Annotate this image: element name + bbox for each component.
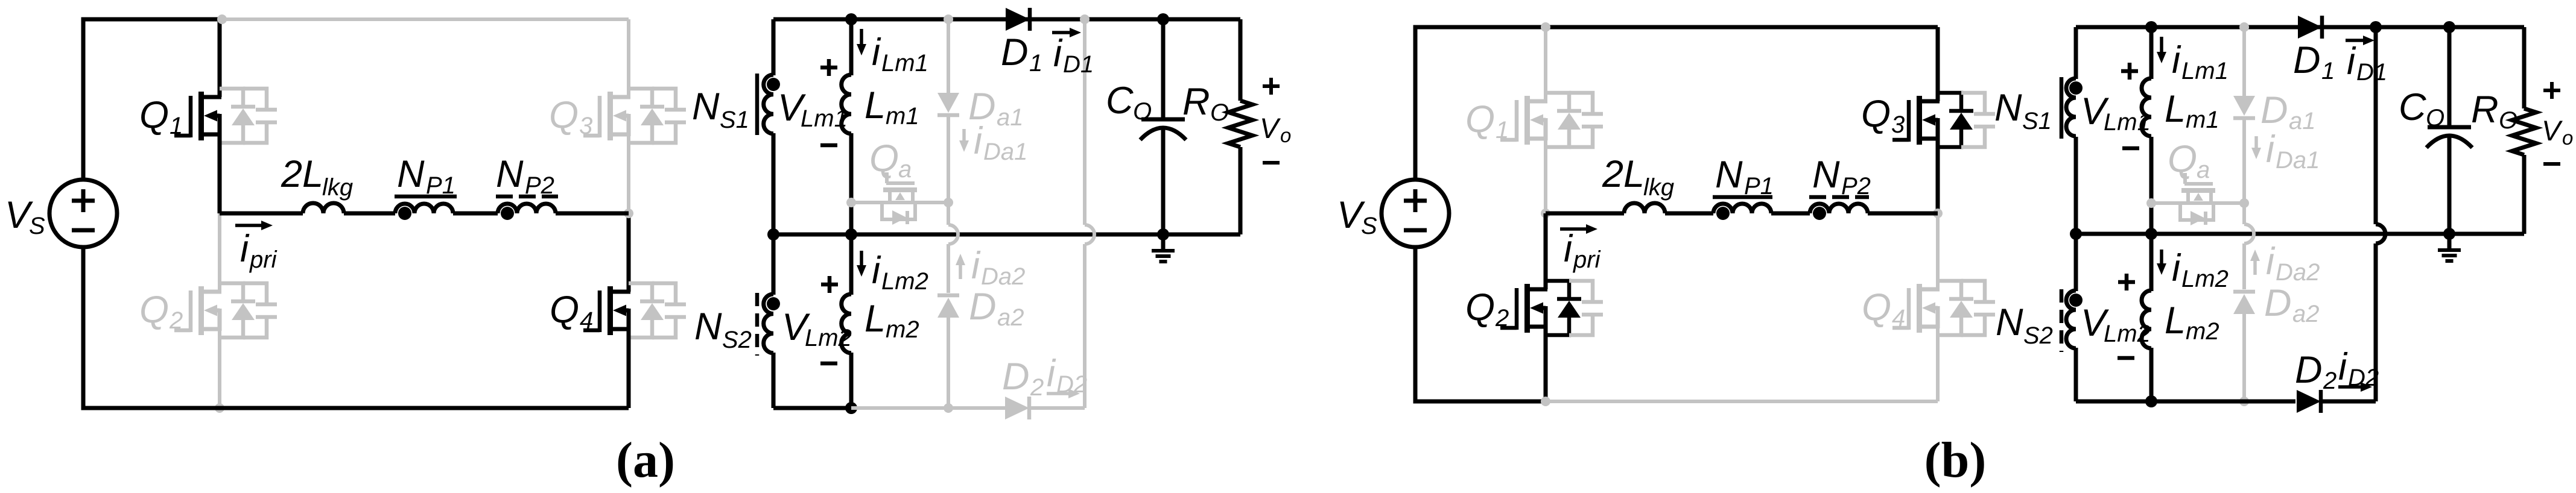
label VS (a) [5,194,45,239]
svg-text:Da2: Da2 [981,263,1025,290]
node gray dot Da1 top (a) [944,14,953,24]
label ipri (a) [240,228,278,273]
wire Q1 source to node A (a) [218,134,222,213]
winding NS1 (a) [764,75,773,134]
label Lm1 (b) [2165,88,2219,133]
node dot CO bottom (a) [1157,228,1169,240]
svg-text:O: O [2499,107,2517,134]
svg-text:m2: m2 [2186,318,2219,345]
node gray dot Qa right (b) [2239,198,2249,208]
capacitor CO (a) [1140,119,1186,140]
svg-text:o: o [2562,127,2573,149]
wire gray Q1 source (b) [1544,139,1547,213]
svg-text:1: 1 [2321,58,2335,84]
svg-text:1: 1 [1029,50,1042,77]
polarity dot NS2 (b) [2069,294,2083,307]
label D1 (b) [2293,39,2335,84]
label iD2 (b) [2338,346,2379,391]
winding NS2 (a) [764,294,773,353]
dashed core bar NS2 (b) [2060,289,2064,352]
svg-text:4: 4 [1892,305,1905,331]
label CO (b) [2399,86,2444,131]
wire node A to 2Llkg (b) [1546,212,1624,216]
svg-text:1: 1 [1496,117,1509,143]
node dot NS1 mid rail (b) [2070,228,2082,240]
svg-text:P2: P2 [1841,173,1871,199]
current arrow iD1 (b) [2346,36,2375,45]
ground (a) [1152,234,1175,262]
inductor Lm1 branch wire (b) [2149,27,2154,234]
dashed overline NP2 (a) [496,195,558,199]
svg-text:2: 2 [1030,374,1044,401]
label iD1 (a) [1053,33,1094,78]
svg-text:P1: P1 [1744,173,1774,199]
svg-text:Q: Q [139,289,169,331]
label RO (b) [2471,89,2517,134]
svg-text:N: N [1715,154,1743,196]
capacitor CO lower lead (a) [1161,128,1166,234]
wire hop Da column over mid rail (a) [948,225,958,244]
svg-text:i: i [1564,228,1573,270]
svg-text:N: N [1996,301,2023,344]
label 2Llkg (a) [281,153,353,201]
node gray dot Q2 bottom (a) [215,403,224,413]
current arrow iD1 (a) [1052,28,1081,37]
wire RO right branch lower (a) [1239,147,1243,234]
wire VS top to Q1 drain (a) [83,19,220,180]
label NP1 (b) [1715,154,1774,199]
svg-text:1: 1 [170,113,183,139]
node gray dot node B (b) [1933,209,1943,218]
wire gray Q1 drain (b) [1544,27,1547,101]
svg-text:Q: Q [139,94,169,136]
svg-text:N: N [692,86,720,128]
label VLm1 (a) [778,87,848,132]
label D2 (a) [1002,356,1044,401]
label Q2 (b) [1465,286,1509,331]
resistor RO (b) [2512,108,2536,155]
svg-text:3: 3 [1891,111,1905,138]
minus VLm2 (a) [820,362,837,366]
label ipri (b) [1564,228,1601,273]
svg-text:i: i [872,31,881,74]
svg-text:a2: a2 [997,304,1024,331]
transistor Qa (a) [851,172,948,225]
svg-text:P1: P1 [426,172,455,199]
svg-text:S: S [1361,213,1377,239]
wire NP1 to NP2 (b) [1771,212,1810,216]
svg-text:o: o [1280,124,1291,146]
label iLm1 (b) [2172,39,2229,84]
svg-text:i: i [974,120,983,162]
diode Da1 (b) [2233,96,2255,118]
svg-text:D: D [2264,282,2292,324]
transistor Q4 (a) [583,283,686,338]
svg-text:D1: D1 [2356,59,2387,86]
svg-text:D2: D2 [1056,371,1087,398]
winding NS2 (b) [2066,290,2076,348]
diode D1 (a) [1006,8,1030,31]
svg-text:2L: 2L [1602,153,1645,195]
capacitor CO lower lead (b) [2448,136,2452,234]
svg-text:2L: 2L [281,153,323,195]
svg-text:i: i [2172,247,2181,289]
node gray dot output column top (a) [1080,14,1090,24]
minus Vo (a) [1263,161,1280,165]
label NS1 (a) [692,86,749,133]
label NP2 (a) [496,153,554,199]
wire Q2 source (b) [1544,327,1548,401]
wire gray bottom rail to D2 (a) [851,406,1005,410]
svg-text:V: V [2542,115,2563,146]
svg-text:pri: pri [1573,246,1601,273]
dashed core bar NS2 (a) [755,293,760,356]
svg-text:(a): (a) [616,432,675,488]
wire gray Q4 drain (b) [1936,213,1940,289]
svg-text:Q: Q [549,94,579,136]
winding NP2 (b) [1810,204,1868,213]
current arrow iDa2 (b) [2250,250,2260,275]
node dot CO bottom (b) [2443,228,2455,240]
svg-text:i: i [2266,240,2276,283]
wire gray Da1 to Qa node (a) [947,115,950,203]
wire NS1 left branch (b) [2074,27,2078,234]
wire RO right branch lower (b) [2522,155,2527,234]
svg-text:i: i [2347,40,2356,83]
svg-text:L: L [864,84,886,127]
wire gray Q2 source to bottom rail (a) [218,329,221,408]
capacitor CO upper lead (a) [1161,19,1166,118]
label Vo (b) [2542,115,2573,149]
svg-text:S2: S2 [722,327,752,353]
svg-text:i: i [2338,346,2348,388]
svg-text:D1: D1 [1063,51,1094,78]
polarity dot NP2 (a) [501,207,514,220]
label VLm2 (b) [2081,302,2151,347]
winding Lm1 (a) [842,75,851,134]
wire 2Llkg to NP1 (a) [344,212,395,216]
svg-text:N: N [1994,87,2022,129]
svg-text:L: L [2165,88,2186,130]
polarity dot NP2 (b) [1813,207,1826,220]
minus VLm1 (a) [820,143,837,148]
svg-text:i: i [971,245,981,287]
transistor Q4 (b) [1892,281,1995,335]
wire gray output column upper (a) [1083,19,1087,225]
label Vo (a) [1260,112,1291,146]
svg-text:a1: a1 [2289,108,2316,134]
svg-text:Lm2: Lm2 [2181,266,2229,292]
current arrow iDa1 (a) [959,129,969,152]
svg-text:i: i [2172,39,2181,81]
svg-text:lkg: lkg [322,174,353,201]
svg-text:Lm1: Lm1 [881,50,928,77]
diode Da2 (b) [2233,292,2255,314]
wire bottom rail black (b) [1415,248,1546,401]
polarity dot NS1 (a) [767,78,780,91]
node gray dot Da2 bottom (b) [2239,397,2249,406]
node dot Lm1 mid (b) [2145,228,2157,240]
core bar NS1 (a) [755,74,760,135]
winding Lm1 (b) [2142,78,2151,136]
svg-text:D: D [2293,39,2321,81]
label NS2 (b) [1996,301,2053,349]
svg-text:2: 2 [1495,305,1509,331]
svg-text:O: O [2426,105,2444,131]
svg-text:i: i [1053,33,1063,75]
label Q3 (a) [549,94,592,139]
svg-text:lkg: lkg [1643,174,1674,201]
inductor Lm2 branch wire (b) [2149,234,2154,401]
label Da1 (a) [968,86,1024,131]
winding NP1 (b) [1713,204,1771,213]
node dot Lm2 bottom (b) [2145,395,2157,407]
wire NS2 left branch (a) [772,234,776,408]
wire Q4 source to bottom rail (a) [627,329,631,408]
svg-text:D: D [969,286,997,328]
diode D2 (a) [1005,397,1029,419]
inductor Lm1 branch wire (a) [849,19,854,234]
wire hop output column over mid rail (a) [1085,225,1094,244]
label Qa (b) [2168,138,2210,183]
label D2 (b) [2295,349,2336,394]
node gray dot Qa left (b) [2146,198,2156,208]
node dot Lm1 top (a) [845,13,857,25]
plus VLm1 (b) [2121,63,2138,80]
svg-text:a1: a1 [997,104,1024,131]
wire secondary top rail (b) [2076,25,2524,30]
label NP1 (a) [397,153,455,199]
wire gray top rail Q1-Q3 (a) [220,17,629,21]
svg-text:i: i [1047,353,1056,395]
svg-text:S1: S1 [2022,108,2052,134]
wire hop Da column over mid rail (b) [2244,224,2254,243]
wire gray Da2 to bottom rail (a) [947,318,950,408]
svg-text:Q: Q [1465,286,1495,328]
label Q1 (a) [139,94,183,139]
node dot CO top (b) [2443,21,2455,33]
wire gray bottom rail (b) [1546,400,1938,403]
label Da1 (b) [2260,89,2316,134]
core bar NS1 (b) [2060,77,2064,139]
label Q4 (a) [550,289,593,334]
wire gray hop to Da2 (b) [2242,243,2246,289]
svg-text:4: 4 [580,307,593,334]
label Lm2 (b) [2165,300,2219,345]
transistor Qa (b) [2151,173,2244,225]
ground (b) [2438,234,2461,261]
svg-text:a: a [898,156,912,183]
caption (b) [1924,432,1987,488]
node gray dot Da2 bottom (a) [944,403,953,413]
svg-text:m1: m1 [2186,107,2219,133]
polarity dot NP1 (b) [1716,207,1730,220]
wire output column lower (b) [2374,243,2378,401]
transistor Q3 (b) [1892,93,1995,147]
svg-text:L: L [864,298,886,340]
label iD1 (b) [2347,40,2387,86]
transistor Q1 (b) [1500,93,1603,147]
svg-text:Q: Q [1862,286,1891,328]
current arrow iD2 (b) [2338,382,2372,392]
node gray dot top rail (b) [1541,22,1550,32]
wire NP1 to NP2 (a) [453,212,498,216]
label Q4 (b) [1862,286,1905,331]
svg-text:Lm1: Lm1 [2181,58,2229,84]
wire secondary bottom rail (b) [2076,400,2295,404]
diode D2 (b) [2297,390,2321,413]
transistor Q3 (a) [583,89,686,143]
polarity dot NS2 (a) [767,297,780,310]
wire secondary bottom rail black (a) [773,406,851,410]
label NS1 (b) [1994,87,2052,134]
wire hop output column over mid rail (b) [2376,224,2385,243]
wire Q1 drain (a) [218,19,222,97]
svg-text:pri: pri [249,246,278,273]
minus VLm1 (b) [2122,146,2139,151]
svg-text:C: C [1106,80,1134,122]
label Qa (a) [869,137,912,183]
wire RO right branch upper (b) [2522,27,2527,108]
svg-text:Q: Q [1465,98,1495,140]
current arrow iLm2 (b) [2157,250,2166,275]
inductor Lm2 branch wire (a) [849,234,854,408]
wire gray Qa node to hop (b) [2242,203,2246,224]
plus VLm2 (a) [821,276,838,293]
label iLm2 (b) [2172,247,2229,292]
node dot CO top (a) [1157,13,1169,25]
svg-text:2: 2 [2323,368,2336,394]
wire secondary top rail (a) [773,17,1240,22]
inductor 2Llkg (a) [303,203,344,213]
label Lm2 (a) [864,298,919,343]
wire NP2 to node B (b) [1868,212,1938,216]
node dot output column top (b) [2370,21,2382,33]
svg-text:Da2: Da2 [2276,259,2320,286]
label Lm1 (a) [864,84,919,130]
label iLm2 (a) [872,250,928,295]
winding NP1 (a) [395,204,453,213]
wire gray Da1 column upper (b) [2242,27,2246,98]
wire 2Llkg to NP1 (b) [1665,212,1713,216]
winding Lm2 (b) [2142,290,2151,348]
capacitor CO upper lead (b) [2448,27,2452,126]
label iD2 (a) [1047,353,1087,398]
wire Q3 drain (b) [1936,27,1940,101]
svg-text:Q: Q [869,137,899,180]
wire gray hop to Da2 (a) [947,244,950,293]
node gray dot top rail (a) [217,14,227,24]
svg-text:Da1: Da1 [2276,147,2320,174]
svg-text:D: D [1002,356,1030,398]
svg-text:D: D [2295,349,2323,391]
svg-text:i: i [240,228,250,270]
node gray dot node B (a) [624,209,633,218]
voltage source VS (b) [1382,180,1449,247]
node dot Lm2 bottom (a) [845,402,857,414]
label Q1 (b) [1465,98,1509,143]
svg-text:i: i [872,250,881,292]
label D1 (a) [1001,31,1042,77]
svg-text:S2: S2 [2023,322,2053,349]
label iDa2 (b) [2266,240,2320,286]
wire Q2 drain (b) [1544,213,1548,289]
svg-text:L: L [2165,300,2186,342]
label Da2 (a) [969,286,1024,331]
label 2Llkg (b) [1602,153,1674,201]
wire D2 to output column (b) [2323,400,2376,404]
wire Q4 drain from node B (a) [627,213,631,292]
label VLm2 (a) [782,306,852,351]
wire gray Qa node to hop (a) [947,203,950,225]
transistor Q2 (a) [174,283,277,338]
label iDa1 (a) [974,120,1027,165]
svg-text:R: R [1182,81,1210,123]
capacitor CO (b) [2426,127,2472,148]
wire NP2 to node B (a) [556,212,629,216]
label NS2 (a) [694,306,752,353]
overline NP1 (a) [395,195,457,199]
wire bottom rail (a) [83,248,629,408]
label RO (a) [1182,81,1229,126]
winding NS1 (b) [2066,78,2076,136]
node gray dot Qa right (a) [944,198,953,207]
svg-text:S1: S1 [720,107,749,133]
svg-text:(b): (b) [1924,432,1987,488]
plus VLm2 (b) [2118,274,2135,290]
label Da2 (b) [2264,282,2320,327]
svg-text:Da1: Da1 [983,139,1027,165]
plus Vo (a) [1263,78,1280,95]
node gray dot bottom rail (b) [1541,397,1550,406]
node dot NS1 mid rail (a) [767,228,779,240]
svg-text:Q: Q [550,289,579,331]
wire mid rail (b) [2076,232,2524,236]
winding NP2 (a) [498,204,556,213]
svg-text:D: D [2260,89,2288,131]
wire primary node A to 2Llkg (a) [220,212,303,216]
wire gray Q2 drain (a) [218,213,221,292]
svg-text:a: a [2197,157,2210,183]
plus Vo (b) [2543,82,2560,99]
current arrow ipri (b) [1560,224,1597,234]
diode D1 (b) [2298,16,2322,39]
node gray dot Da1 top (b) [2239,22,2249,32]
transistor Q2 (b) [1500,281,1603,335]
svg-text:N: N [694,306,722,348]
svg-text:S: S [29,213,45,239]
wire gray Q3 drain (a) [627,19,630,97]
label VLm1 (b) [2081,90,2151,136]
plus VLm1 (a) [820,59,837,76]
wire output column upper (b) [2374,27,2378,224]
current arrow iLm1 (a) [857,29,866,55]
wire mid rail (a) [773,233,1240,237]
current arrow iD2 (a) [1047,389,1080,398]
node dot Lm1 mid (a) [845,228,857,240]
wire VS top rail (b) [1415,27,1938,180]
svg-text:N: N [1812,154,1840,196]
node gray dot node A (b) [1541,209,1550,218]
svg-text:Q: Q [2168,138,2197,180]
wire gray D2 to output column (a) [1031,406,1085,410]
svg-text:m2: m2 [886,316,919,343]
wire Q3 source to node B (b) [1936,139,1940,213]
diode Da2 (a) [937,295,959,318]
winding Lm2 (a) [842,294,851,353]
polarity dot NS1 (b) [2069,81,2083,95]
svg-text:D: D [1001,31,1029,74]
